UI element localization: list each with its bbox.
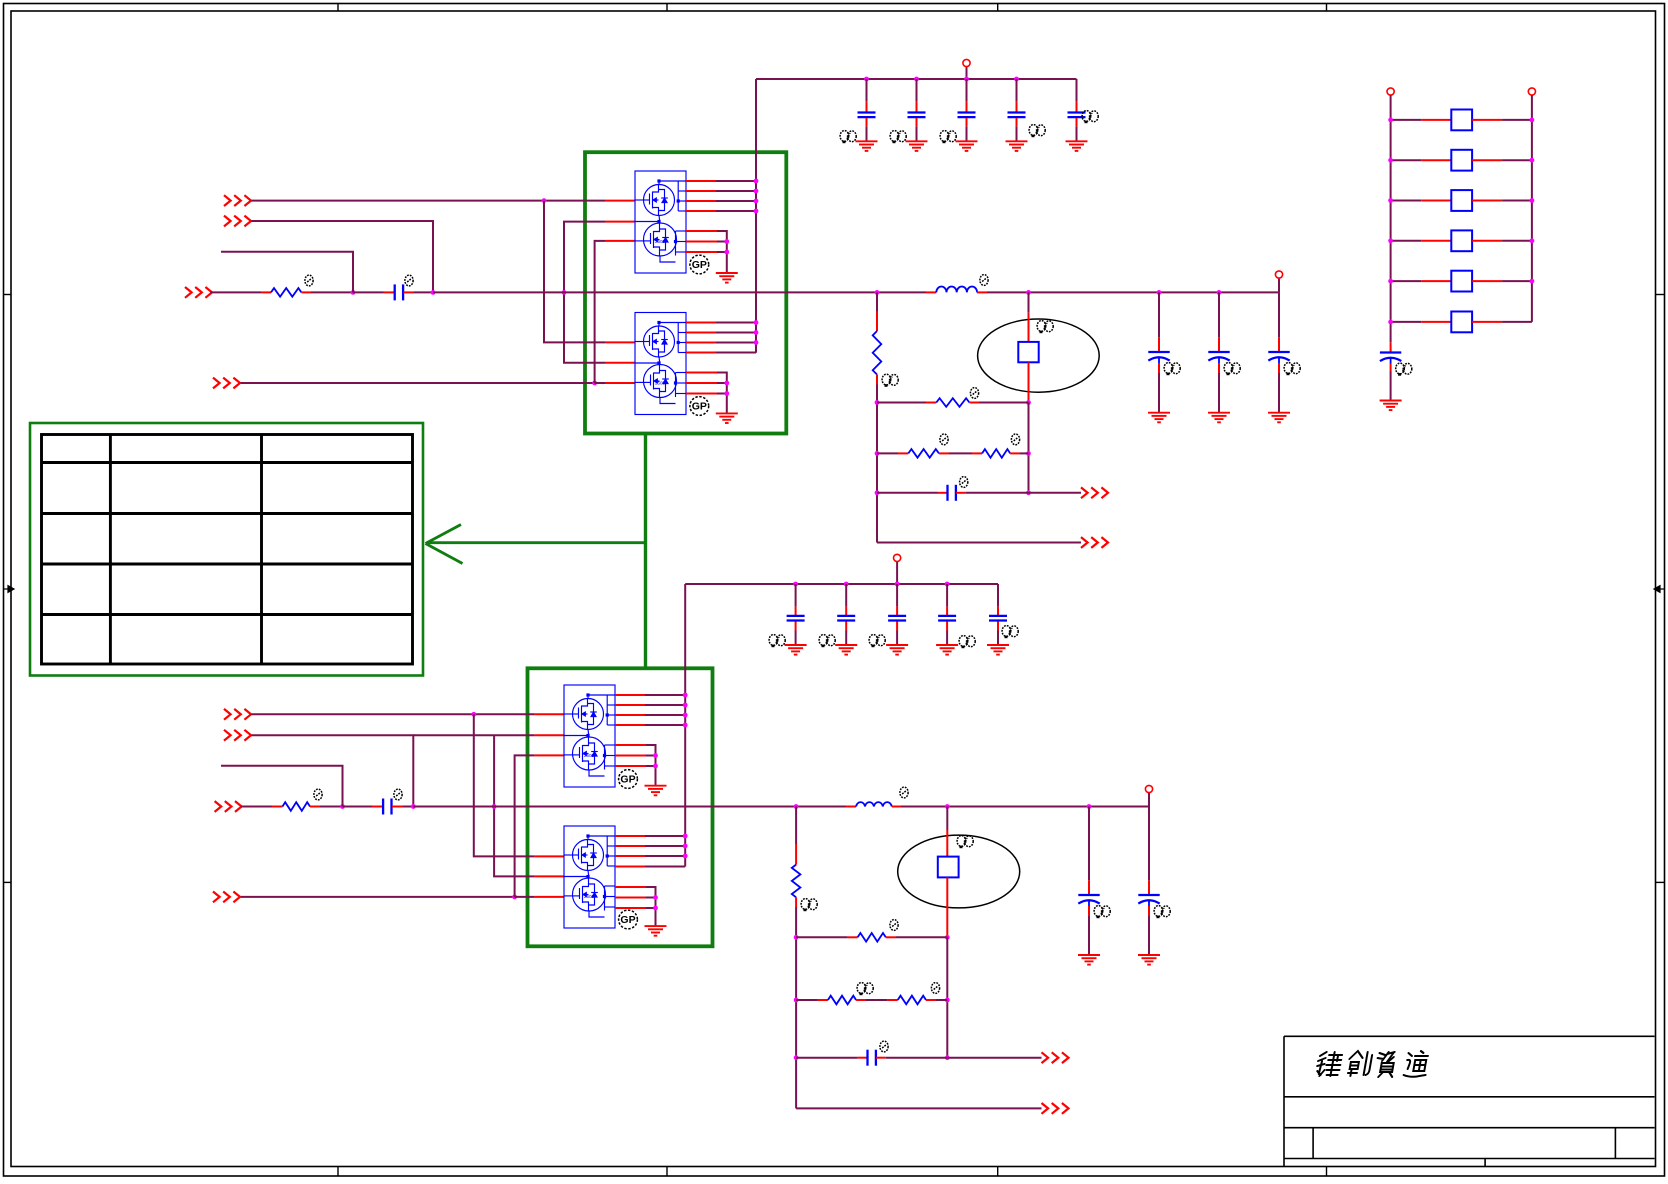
wire R1 to C17 [301, 291, 311, 293]
wire main phase-1 output line [433, 291, 926, 293]
junction (947.1,584) [945, 582, 950, 587]
Q1 high-side drain pins to bus [686, 180, 716, 182]
resistor R11 [1391, 119, 1422, 121]
resistor R10 row [888, 999, 898, 1001]
label GP C4 [1029, 125, 1045, 138]
port connector J7 [224, 709, 251, 720]
junction (433,292.4) [431, 290, 436, 295]
junction (726.8,393.5) [724, 391, 729, 396]
junction (655.5,908) [653, 906, 658, 911]
junction (877,492.8) [875, 490, 880, 495]
wire J7 to module Q3 gate [252, 713, 535, 715]
label GP C10 [1002, 626, 1018, 639]
label C6b [769, 635, 785, 648]
capacitor C3 [966, 79, 968, 101]
junction (1390.6,119.9) [1388, 118, 1393, 123]
ground C16 [1380, 401, 1402, 411]
junction (1159,292.4) [1157, 290, 1162, 295]
svg-text:2505: 2505 [584, 753, 595, 758]
power port P3 stub [896, 562, 898, 585]
ground Q2 [716, 413, 738, 423]
resistor R6 [283, 802, 311, 811]
label C6 phase2 [957, 836, 973, 849]
ground C3 [956, 141, 978, 151]
junction (1531.9,240.8) [1530, 238, 1535, 243]
capacitor C6 [795, 584, 797, 606]
port connector J6 [1081, 537, 1108, 548]
label C3 [940, 131, 956, 144]
junction (655.5,897.5) [653, 895, 658, 900]
label GP Q1 [690, 255, 709, 274]
power port P1 [963, 59, 970, 66]
junction (1531.9,200.5) [1530, 198, 1535, 203]
ground C14 [1078, 955, 1100, 965]
wire to output port J5 [1029, 492, 1082, 494]
label C2 [890, 131, 906, 144]
junction (866.5,79) [864, 77, 869, 82]
wire L1 to output bus [987, 291, 1279, 293]
wire J4 to low-side gates [241, 382, 595, 384]
ground C12 [1208, 413, 1230, 423]
junction (594.6,383) [592, 381, 597, 386]
capacitor C8 [896, 584, 898, 606]
centering arrow right [1654, 586, 1664, 593]
stub wire above R6/C18 [221, 766, 343, 807]
junction (1390.6,160.2) [1388, 158, 1393, 163]
junction (1390.6,281.1) [1388, 279, 1393, 284]
junction (756,201) [754, 199, 759, 204]
label GP C14 [1094, 906, 1110, 919]
ground C4 [1006, 141, 1028, 151]
Q3 high-side drain pins to bus [615, 694, 645, 696]
zone ticks top [338, 4, 1327, 12]
resistor R16 [1391, 321, 1422, 323]
junction (353,292.4) [351, 290, 356, 295]
junction (494.1,806.5) [492, 804, 497, 809]
junction (1531.9,160.2) [1530, 158, 1535, 163]
output capacitor C12 [1218, 292, 1220, 337]
resistor R13 [1391, 200, 1422, 202]
sense element CS2 [946, 807, 948, 831]
ground C11 [1148, 413, 1170, 423]
junction (877,453.4) [875, 451, 880, 456]
junction (1028.5,292.4) [1026, 290, 1031, 295]
Q2 low-side source pins [686, 372, 717, 374]
wire drain vertical bus2 [684, 584, 686, 867]
transistor pair Q1 [635, 171, 686, 273]
wire sense to feedback rows 2 [946, 937, 948, 1057]
ground C13 [1268, 413, 1290, 423]
junction (544,200.6) [542, 198, 547, 203]
junction (685.2,725) [683, 723, 688, 728]
wire J9 to resistor R6 [241, 806, 272, 808]
port connector J12 [1042, 1103, 1069, 1114]
wire R6 to C18 [310, 806, 320, 808]
ground C8 [886, 645, 908, 655]
label C6 [1037, 321, 1053, 334]
note table grid [42, 435, 413, 665]
wire phase node to Q3/Q4 source pins [413, 734, 534, 736]
junction (726.8,252) [724, 250, 729, 255]
svg-text:2505: 2505 [655, 381, 666, 386]
capacitor C20 row [796, 1057, 858, 1059]
capacitor C19 row [877, 492, 938, 494]
centering arrow left [4, 586, 14, 593]
note table green frame [30, 423, 423, 676]
wire J2 down to main node [252, 221, 434, 292]
resistor R14 [1391, 240, 1422, 242]
resistor R9 row [796, 999, 818, 1001]
label GP C12 [1224, 363, 1240, 376]
ground C9 [936, 645, 958, 655]
junction (655.5,755.5) [653, 753, 658, 758]
green branch to table [427, 541, 646, 544]
wire J10 to low-side gates [241, 896, 515, 898]
junction (342.5,806.5) [340, 804, 345, 809]
junction (685.2,846) [683, 844, 688, 849]
resistor R4 row [877, 452, 898, 454]
junction (877,292.4) [875, 290, 880, 295]
ground C6 [785, 645, 807, 655]
junction (947.3,1057.7) [945, 1055, 950, 1060]
junction (1028.5,453.4) [1026, 451, 1031, 456]
junction (916.5,79) [914, 77, 919, 82]
junction (1016.5,79) [1014, 77, 1019, 82]
wire to Q1 low gate [595, 241, 605, 383]
power port P4 stub [1148, 793, 1150, 807]
zone ticks left [4, 295, 12, 883]
transistor pair Q3 [564, 685, 615, 787]
power port P4 [1145, 785, 1152, 792]
transistor pair Q4 [564, 826, 615, 928]
wire to Q4 low gate [515, 896, 535, 898]
ground Q4 [645, 926, 667, 936]
wire J8 down to main node [252, 735, 414, 806]
junction (947.3,806.5) [945, 804, 950, 809]
ground Q3 [645, 786, 667, 796]
Q2 high-side drain pins to bus [686, 322, 716, 324]
title block frame [1284, 1036, 1655, 1166]
junction (795.6,584) [793, 582, 798, 587]
junction (1089,806.5) [1087, 804, 1092, 809]
resistor R1 [271, 288, 301, 297]
Q3 low-side source pins [615, 744, 646, 746]
resistor R7 vertical [795, 807, 797, 845]
wire bottom feedback to J6 [877, 542, 1081, 544]
resistor R5 row [972, 452, 982, 454]
svg-text:GP: GP [692, 259, 707, 271]
junction (1531.9,281.1) [1530, 279, 1535, 284]
junction (897.1,584) [895, 582, 900, 587]
output capacitor C13 [1278, 292, 1280, 337]
junction (756,322.5) [754, 320, 759, 325]
capacitor C10 [997, 584, 999, 606]
power port P3 [894, 554, 901, 561]
wire J1 to module Q1 gate [252, 200, 606, 202]
wire drain vertical bus1 [755, 79, 757, 353]
junction (655.5,766) [653, 764, 658, 769]
power port P1 stub [966, 66, 968, 79]
power port P2 stub [1278, 278, 1280, 292]
junction (413.3,806.5) [411, 804, 416, 809]
stub wire above R1/C17 [221, 252, 353, 293]
svg-text:2505: 2505 [655, 239, 666, 244]
ground C2 [906, 141, 928, 151]
port connector J9 [215, 801, 242, 812]
current sense ellipse E2 [898, 835, 1020, 908]
junction (1390.6,200.5) [1388, 198, 1393, 203]
svg-text:GP: GP [692, 401, 707, 413]
junction (796.1,1057.7) [794, 1055, 799, 1060]
capacitor C1 [866, 79, 868, 101]
junction (756,211) [754, 209, 759, 214]
junction (685.2,695) [683, 693, 688, 698]
junction (685.2,715) [683, 713, 688, 718]
port connector J8 [224, 730, 251, 741]
power port P2 [1275, 271, 1282, 278]
green connector stem [644, 435, 647, 667]
current sense ellipse E1 [978, 319, 1100, 392]
junction (796.1,1000) [794, 998, 799, 1003]
zone ticks bottom [338, 1167, 1327, 1177]
junction (756,191) [754, 189, 759, 194]
junction (756,332.5) [754, 330, 759, 335]
svg-text:GP: GP [620, 774, 635, 786]
label GP C9 [959, 636, 975, 649]
svg-text:2505: 2505 [584, 894, 595, 899]
transistor pair Q2 [635, 313, 686, 415]
junction (726.8,241.5) [724, 239, 729, 244]
port connector J11 [1042, 1052, 1069, 1063]
resistor R3 row [877, 402, 926, 404]
label GP Q2 [690, 397, 709, 416]
junction (756,181) [754, 179, 759, 184]
port connector J2 [224, 216, 251, 227]
wire rail R2 down [876, 385, 878, 543]
junction (947.3,937.3) [945, 935, 950, 940]
junction (1219,292.4) [1217, 290, 1222, 295]
label GP C13 [1284, 363, 1300, 376]
wire branch to Q4 gate [474, 714, 535, 856]
inductor L1 [926, 291, 936, 293]
junction (1390.6,240.8) [1388, 238, 1393, 243]
junction (726.8,383) [724, 381, 729, 386]
output capacitor C15 [1148, 807, 1150, 881]
junction (1390.6,321.9) [1388, 320, 1393, 325]
junction (473.8,714.3) [471, 712, 476, 717]
label C7 [819, 635, 835, 648]
power port P6 [1528, 88, 1535, 95]
label GP C15 [1154, 906, 1170, 919]
label GP Q4 [619, 910, 638, 929]
junction (756,342.5) [754, 340, 759, 345]
label GP C16 [1396, 363, 1412, 376]
ground C15 [1138, 955, 1160, 965]
wire sense to feedback rows [1028, 403, 1030, 493]
label GP C5 [1082, 111, 1098, 124]
junction (685.2,705) [683, 703, 688, 708]
zone ticks right [1656, 295, 1665, 883]
green group box 2 [528, 668, 713, 946]
wire bottom feedback 2 to J12 [796, 1107, 1041, 1109]
junction (796.1,806.5) [794, 804, 799, 809]
junction (685.2,856) [683, 854, 688, 859]
junction (514.6,896.9) [512, 895, 517, 900]
ground C10 [987, 645, 1009, 655]
junction (1028.5,402.5) [1026, 400, 1031, 405]
junction (1531.9,119.9) [1530, 118, 1535, 123]
junction (685.2,836) [683, 834, 688, 839]
Q1 low-side source pins [686, 230, 717, 232]
ground C1 [856, 141, 878, 151]
capacitor C5 [1076, 79, 1078, 101]
label C1 [840, 131, 856, 144]
wire ladder right rail [1531, 95, 1533, 322]
junction (877,402.5) [875, 400, 880, 405]
wire ladder left rail [1390, 95, 1392, 326]
wire Vin bus 2 [685, 583, 998, 585]
capacitor C7 [845, 584, 847, 606]
Q4 low-side source pins [615, 886, 646, 888]
capacitor C2 [916, 79, 918, 101]
label GP C11 [1164, 363, 1180, 376]
capacitor C9 [946, 584, 948, 606]
capacitor C16 [1390, 326, 1392, 342]
junction (1028.5,492.8) [1026, 490, 1031, 495]
green group box 1 [585, 152, 786, 433]
port connector J1 [224, 195, 251, 206]
output capacitor C11 [1158, 292, 1160, 337]
capacitor C18 [343, 806, 373, 808]
ground C5 [1066, 141, 1088, 151]
svg-text:GP: GP [620, 914, 635, 926]
resistor R12 [1391, 159, 1422, 161]
ground Q1 [716, 273, 738, 283]
capacitor C17 [353, 291, 384, 293]
resistor R2 vertical [876, 292, 878, 311]
green arrowhead at table [426, 525, 463, 564]
junction (947.3,1000) [945, 998, 950, 1003]
junction (796.1,937.3) [794, 935, 799, 940]
junction (966.5,79) [964, 77, 969, 82]
resistor R15 [1391, 280, 1422, 282]
wire to Q2 low gate [595, 382, 605, 384]
wire branch to Q2 gate [544, 201, 605, 343]
label GP Q3 [619, 770, 638, 789]
wire to Q3 low gate [515, 755, 535, 897]
company logo text [1315, 1051, 1430, 1077]
junction (846.2,584) [844, 582, 849, 587]
label C8 [869, 635, 885, 648]
sense element CS1 [1028, 292, 1030, 312]
ground C7 [835, 645, 857, 655]
wire main phase-2 output line [413, 806, 846, 808]
wire J3 to resistor R1 [210, 291, 261, 293]
Q4 high-side drain pins to bus [615, 835, 645, 837]
resistor R8 row [796, 936, 848, 938]
output capacitor C14 [1088, 807, 1090, 881]
wire rail R7 down [795, 907, 797, 1108]
wire Vin bus 1 [756, 78, 1077, 80]
power port P5 [1387, 88, 1394, 95]
port connector J3 [185, 287, 212, 298]
port connector J10 [213, 892, 240, 903]
capacitor C4 [1016, 79, 1018, 101]
wire to output port J11 [947, 1057, 1041, 1059]
wire L2 to output bus [901, 806, 1149, 808]
port connector J4 [213, 378, 240, 389]
wire phase node to Q1/Q2 source pins [564, 222, 605, 363]
port connector J5 [1081, 487, 1108, 498]
inductor L2 [846, 806, 856, 808]
junction (564,292.4) [562, 290, 567, 295]
